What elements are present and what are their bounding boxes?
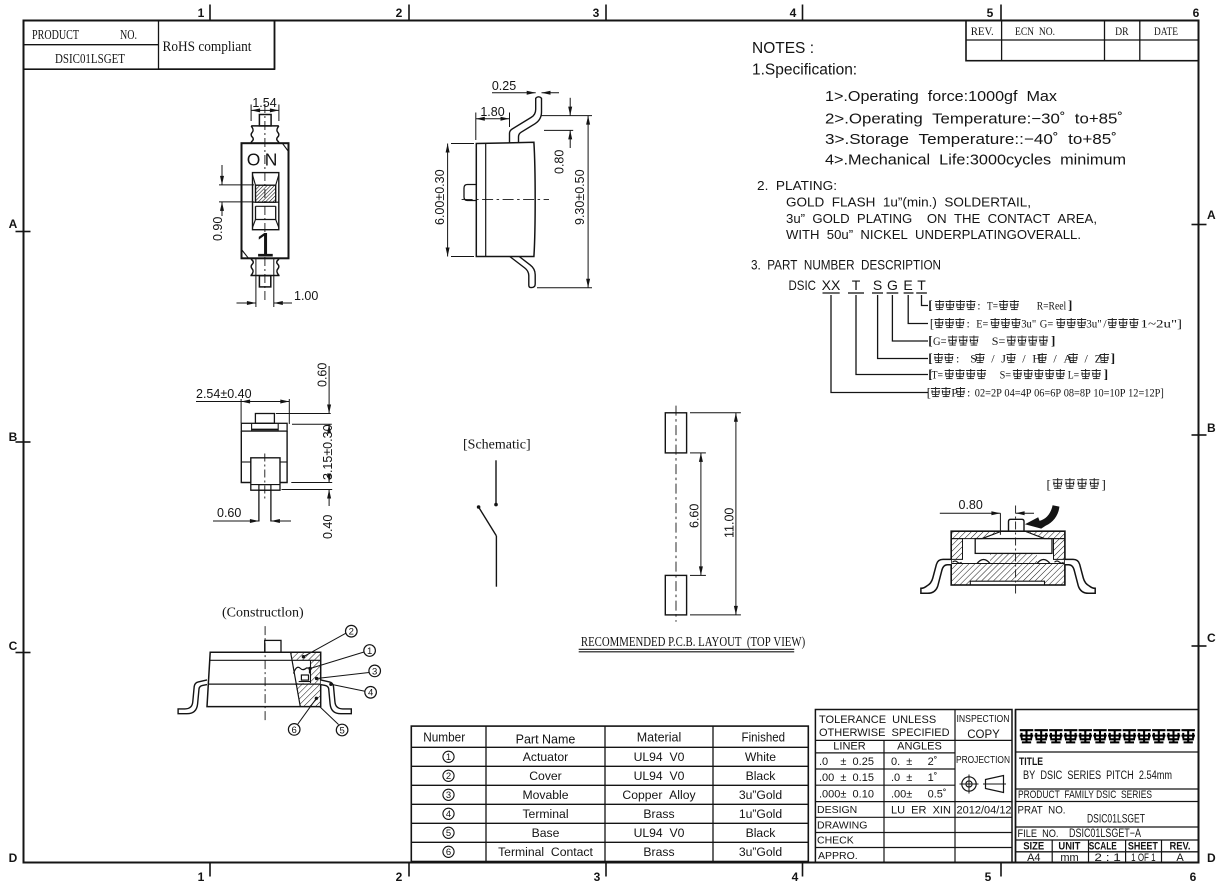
svg-text:S=: S= — [1000, 368, 1012, 382]
svg-text:REV.: REV. — [971, 24, 994, 38]
svg-text:.0 ± 1˚: .0 ± 1˚ — [891, 772, 937, 784]
side view body left band — [485, 143, 487, 256]
front view top flare — [251, 126, 279, 143]
pitch view top band — [241, 423, 287, 431]
dimension 0.90 left — [219, 184, 254, 186]
svg-text:2.54±0.40: 2.54±0.40 — [196, 387, 252, 401]
svg-text:REV.: REV. — [1170, 841, 1191, 853]
svg-text:INSPECTION: INSPECTION — [957, 714, 1010, 725]
svg-text:2012/04/12: 2012/04/12 — [957, 805, 1012, 817]
svg-text:1: 1 — [255, 227, 274, 265]
side view top lead — [510, 97, 542, 143]
front view slider knob hatched — [256, 185, 276, 202]
svg-text:Finished: Finished — [742, 731, 786, 745]
svg-text:9.30±0.50: 9.30±0.50 — [573, 169, 587, 225]
svg-text:XX: XX — [822, 277, 841, 293]
pitch view knob — [255, 414, 274, 424]
svg-text:3u” GOLD PLATING ON THE: 3u” GOLD PLATING ON THE CONTACT AREA, — [786, 211, 1097, 226]
svg-text:SCALE: SCALE — [1089, 841, 1117, 853]
construction right lead — [321, 680, 352, 714]
travel view right lead — [1065, 559, 1095, 593]
tolerance table grid — [815, 710, 1012, 863]
schematic switch lower wire — [495, 536, 497, 587]
svg-text:Number: Number — [423, 731, 465, 745]
side view body outline — [476, 142, 535, 256]
travel view contact squiggle right — [1055, 561, 1064, 563]
svg-text:4>.Mechanical Life:3000cycles: 4>.Mechanical Life:3000cycles minimum — [825, 153, 1126, 169]
svg-text:DR: DR — [1115, 24, 1129, 38]
svg-text:E: E — [903, 277, 912, 293]
svg-text:Cover: Cover — [529, 769, 562, 783]
svg-text:6: 6 — [1193, 6, 1200, 20]
svg-text:5: 5 — [985, 870, 992, 884]
svg-text:2: 2 — [446, 771, 451, 782]
svg-text:PRODUCT: PRODUCT — [32, 27, 80, 42]
svg-text:G: G — [887, 277, 898, 293]
svg-text:[Schematic]: [Schematic] — [463, 438, 531, 453]
svg-text:DATE: DATE — [1154, 24, 1178, 38]
svg-text:S: S — [970, 352, 977, 366]
travel view knob — [1009, 519, 1025, 531]
svg-text:GOLD FLASH 1u”(min.) SOLDER: GOLD FLASH 1u”(min.) SOLDERTAIL, — [786, 195, 1031, 210]
svg-text:[: [ — [927, 386, 931, 400]
svg-text:TITLE: TITLE — [1019, 756, 1043, 768]
svg-text:DSIC01LSGET−A: DSIC01LSGET−A — [1069, 828, 1141, 840]
revision table — [966, 21, 1199, 61]
svg-text:[: [ — [928, 333, 932, 348]
svg-text:5: 5 — [987, 6, 994, 20]
pitch view centerline — [264, 454, 266, 501]
construction left lead — [178, 680, 207, 714]
projection cone — [986, 776, 1004, 793]
svg-text:3u": 3u" — [1086, 317, 1102, 331]
svg-text:.0 ± 0.25: .0 ± 0.25 — [819, 756, 874, 768]
svg-text:B: B — [1207, 421, 1216, 435]
svg-text:3: 3 — [446, 790, 451, 801]
svg-text:5: 5 — [339, 725, 344, 736]
dimension 1.00 bottom — [255, 259, 257, 307]
svg-text:0.80: 0.80 — [959, 498, 983, 512]
svg-text:S=: S= — [992, 334, 1006, 348]
svg-text:1>.Operating force:1000gf Ma: 1>.Operating force:1000gf Max — [825, 89, 1058, 105]
frame zone ticks top — [209, 5, 211, 21]
svg-text:3>.Storage Temperature::−40˚: 3>.Storage Temperature::−40˚ to+85˚ — [825, 132, 1117, 148]
svg-text:DESIGN: DESIGN — [817, 804, 857, 816]
side view centerline — [462, 198, 549, 200]
svg-text:APPRO.: APPRO. — [818, 850, 858, 862]
construction body lines — [210, 659, 321, 661]
travel view centerline — [1015, 506, 1017, 595]
construction section slant line — [291, 652, 301, 706]
svg-text:.000± 0.10: .000± 0.10 — [819, 788, 874, 800]
construction movable contact — [294, 667, 310, 673]
svg-text:0.25: 0.25 — [492, 79, 516, 93]
travel view contact band hatched — [990, 553, 1037, 563]
front view centerline — [264, 104, 266, 303]
svg-text:D: D — [1207, 851, 1216, 865]
svg-text:E=: E= — [976, 317, 988, 331]
svg-text:NO.: NO. — [120, 27, 137, 42]
svg-text:[: [ — [1047, 477, 1051, 492]
svg-text:Brass: Brass — [643, 807, 674, 821]
side view bottom lead — [510, 257, 535, 288]
svg-text:D: D — [9, 851, 18, 865]
svg-text:3u”Gold: 3u”Gold — [739, 845, 782, 859]
svg-text:PRAT NO.: PRAT NO. — [1018, 805, 1066, 817]
pcb layout top pad — [665, 413, 686, 453]
svg-text::: : — [956, 352, 959, 366]
svg-text:4: 4 — [792, 870, 799, 884]
svg-text:]: ] — [1068, 298, 1072, 313]
travel view slot edges — [982, 531, 1045, 538]
svg-text:.00± 0.5˚: .00± 0.5˚ — [891, 788, 947, 800]
svg-text:NOTES :: NOTES : — [752, 40, 814, 57]
svg-text:2>.Operating Temperature:−30˚: 2>.Operating Temperature:−30˚ to+85˚ — [825, 112, 1123, 128]
svg-text:RECOMMENDED P.C.B. LAYOUT (TO: RECOMMENDED P.C.B. LAYOUT (TOP VIEW) — [581, 634, 805, 650]
svg-text:4: 4 — [368, 688, 373, 699]
svg-text:]: ] — [1051, 333, 1055, 348]
front view slot shoulders top — [253, 175, 279, 185]
svg-text:BY DSIC SERIES PITCH 2.54m: BY DSIC SERIES PITCH 2.54mm — [1023, 770, 1172, 782]
travel view contact squiggle left — [953, 561, 962, 563]
svg-text:6: 6 — [292, 725, 297, 736]
svg-text:ECN NO.: ECN NO. — [1015, 24, 1055, 38]
svg-text:Black: Black — [746, 826, 777, 840]
svg-text:B: B — [9, 430, 18, 444]
svg-text:1: 1 — [446, 752, 451, 763]
svg-text:Part Name: Part Name — [516, 733, 576, 747]
part number code underlines — [823, 292, 840, 294]
svg-text:1~2u"]: 1~2u"] — [1141, 317, 1183, 331]
svg-text:0.40: 0.40 — [321, 515, 335, 539]
svg-text:3: 3 — [372, 666, 377, 677]
construction body outline — [207, 652, 321, 706]
svg-text:.00 ± 0.15: .00 ± 0.15 — [819, 772, 874, 784]
front view body corner notch bottom-left — [242, 250, 249, 259]
svg-text:2: 2 — [396, 870, 403, 884]
front view top pin — [259, 115, 271, 126]
pitch view body — [241, 431, 287, 482]
size unit scale sheet rev row — [1051, 840, 1053, 863]
svg-text:UNIT: UNIT — [1058, 841, 1080, 853]
svg-text:1u”Gold: 1u”Gold — [739, 807, 782, 821]
svg-text:C: C — [1207, 631, 1216, 645]
svg-text:T=: T= — [932, 368, 944, 382]
svg-text:Brass: Brass — [643, 845, 674, 859]
svg-text:02=2P 04=4P 06=6P 08=8P 10=10P: 02=2P 04=4P 06=6P 08=8P 10=10P 12=12P] — [975, 386, 1164, 400]
svg-text::: : — [967, 386, 970, 400]
svg-text:]: ] — [1111, 351, 1115, 366]
part number leader lines — [922, 295, 929, 306]
svg-text:DRAWING: DRAWING — [817, 820, 867, 832]
svg-text:Terminal: Terminal — [522, 807, 568, 821]
construction right wall hatch — [311, 660, 321, 683]
svg-text:[: [ — [930, 317, 934, 331]
svg-text:ANGLES: ANGLES — [897, 741, 942, 753]
construction knob — [265, 640, 281, 652]
svg-text:C: C — [9, 639, 18, 653]
pitch view body inner line — [241, 461, 251, 463]
svg-text::: : — [977, 299, 980, 313]
svg-text:mm: mm — [1060, 852, 1078, 864]
svg-text:A: A — [9, 217, 18, 231]
svg-text:6: 6 — [446, 847, 451, 858]
construction centerline — [264, 626, 266, 721]
projection symbol — [962, 777, 976, 791]
svg-text:1.54: 1.54 — [252, 96, 276, 110]
svg-text:T: T — [852, 277, 861, 293]
svg-text:Terminal Contact: Terminal Contact — [498, 845, 593, 859]
svg-text:A: A — [1207, 208, 1216, 222]
svg-text:G=: G= — [933, 334, 947, 348]
travel view body outline — [951, 531, 1065, 585]
svg-text:[: [ — [928, 298, 932, 313]
svg-text:1: 1 — [367, 646, 372, 657]
svg-text:LINER: LINER — [833, 741, 865, 753]
svg-text:UL94 V0: UL94 V0 — [634, 750, 685, 764]
svg-text:T=: T= — [987, 299, 998, 313]
svg-text:RoHS compliant: RoHS compliant — [163, 39, 252, 55]
svg-text:5: 5 — [446, 828, 451, 839]
svg-text:1: 1 — [198, 870, 205, 884]
construction balloon leaders — [303, 633, 346, 657]
svg-text:WITH 50u” NICKEL UNDERPLATI: WITH 50u” NICKEL UNDERPLATINGOVERALL. — [786, 227, 1081, 242]
svg-text:L=: L= — [1068, 368, 1080, 382]
travel view black arrow — [1025, 505, 1060, 528]
svg-text:LU ER XIN: LU ER XIN — [891, 805, 951, 817]
svg-text:PROJECTION: PROJECTION — [956, 755, 1010, 766]
svg-text:0.60: 0.60 — [316, 363, 330, 387]
pitch view slider — [251, 458, 280, 483]
svg-text:6.00±0.30: 6.00±0.30 — [433, 169, 447, 225]
svg-text:2: 2 — [396, 6, 403, 20]
front view bottom flare — [251, 258, 279, 275]
svg-text:UL94 V0: UL94 V0 — [634, 769, 685, 783]
parts table grid — [411, 726, 808, 861]
svg-text:2. PLATING:: 2. PLATING: — [757, 178, 837, 193]
svg-text:11.00: 11.00 — [722, 508, 736, 538]
svg-text:3: 3 — [593, 6, 600, 20]
pcb layout bottom pad — [665, 575, 686, 615]
svg-text:0. ± 2˚: 0. ± 2˚ — [891, 756, 937, 768]
svg-text:0.90: 0.90 — [211, 217, 225, 241]
svg-text:4: 4 — [790, 6, 797, 20]
svg-text:0.60: 0.60 — [217, 506, 241, 520]
svg-text:3u": 3u" — [1021, 317, 1036, 331]
svg-text:1.Specification:: 1.Specification: — [752, 62, 857, 79]
svg-text:Base: Base — [532, 826, 560, 840]
svg-text:1 OF 1: 1 OF 1 — [1131, 852, 1156, 864]
front view slider lower detail — [253, 201, 279, 203]
travel view base hatched — [951, 564, 1065, 586]
svg-text:DSIC: DSIC — [789, 277, 817, 293]
pitch view stem — [258, 490, 260, 521]
svg-text:CHECK: CHECK — [817, 835, 854, 847]
travel view top hatch band — [951, 531, 1001, 538]
svg-text:3: 3 — [594, 870, 601, 884]
svg-text:PRODUCT FAMILY DSIC SERIES: PRODUCT FAMILY DSIC SERIES — [1018, 789, 1152, 801]
title block product-no table — [24, 21, 275, 70]
construction top cover hatch — [291, 652, 321, 660]
svg-text:6: 6 — [1190, 870, 1197, 884]
svg-text:1: 1 — [198, 6, 205, 20]
svg-text:T: T — [917, 277, 926, 293]
travel view inner cover cavity — [975, 539, 1052, 554]
svg-text:[: [ — [928, 351, 932, 366]
front view slider slot — [253, 173, 279, 230]
svg-text:DSIC01LSGET: DSIC01LSGET — [55, 51, 126, 66]
svg-text:1.00: 1.00 — [294, 289, 318, 303]
frame zone ticks right — [1192, 224, 1207, 226]
svg-text:SHEET: SHEET — [1128, 841, 1158, 853]
front view body corner notch top-right — [282, 143, 288, 151]
svg-text:Material: Material — [637, 731, 681, 745]
front view bottom pin — [259, 276, 270, 287]
svg-text:N: N — [265, 150, 278, 170]
travel view contact arcs — [977, 560, 990, 564]
company block grid — [1015, 710, 1017, 863]
parts table rows — [443, 751, 454, 762]
svg-text:6.60: 6.60 — [687, 504, 701, 528]
svg-text:SIZE: SIZE — [1023, 841, 1044, 853]
pitch view stem top detail — [259, 485, 271, 491]
svg-text:DSIC01LSGET: DSIC01LSGET — [1087, 814, 1145, 826]
svg-text:OTHERWISE SPECIFIED: OTHERWISE SPECIFIED — [819, 727, 950, 739]
svg-text:(Constructlon): (Constructlon) — [222, 606, 304, 621]
svg-text:G=: G= — [1040, 317, 1054, 331]
construction base hatch — [295, 683, 321, 707]
svg-text:S: S — [873, 277, 882, 293]
side view actuator bump — [464, 185, 476, 201]
svg-text:]: ] — [1104, 367, 1108, 382]
svg-text:2 : 1: 2 : 1 — [1094, 852, 1121, 864]
schematic switch blade — [478, 506, 496, 536]
schematic switch upper contact wire — [495, 460, 497, 505]
svg-text:COPY: COPY — [967, 729, 1000, 741]
company name — [1020, 729, 1033, 742]
svg-text:UL94 V0: UL94 V0 — [634, 826, 685, 840]
svg-text:R=Reel: R=Reel — [1037, 299, 1067, 313]
construction balloons — [346, 625, 358, 637]
frame zone ticks left — [16, 231, 31, 233]
svg-text:3. PART NUMBER DESCRIPTION: 3. PART NUMBER DESCRIPTION — [751, 258, 941, 273]
svg-text:TOLERANCE UNLESS: TOLERANCE UNLESS — [819, 714, 936, 726]
svg-text:J: J — [1001, 352, 1006, 366]
svg-text:H: H — [1032, 352, 1041, 366]
svg-text:3u”Gold: 3u”Gold — [739, 788, 782, 802]
travel view side walls hatched — [951, 539, 962, 560]
svg-text:FILE NO.: FILE NO. — [1018, 828, 1059, 840]
frame zone ticks bottom — [209, 863, 211, 877]
svg-text:A: A — [1064, 352, 1073, 366]
svg-text::: : — [967, 317, 970, 331]
svg-text:4: 4 — [446, 809, 451, 820]
svg-text:A4: A4 — [1027, 852, 1040, 864]
svg-text:White: White — [745, 750, 776, 764]
svg-text:]: ] — [1102, 477, 1106, 492]
svg-text:Movable: Movable — [522, 788, 568, 802]
svg-text:0.80: 0.80 — [553, 150, 567, 174]
svg-text:Black: Black — [746, 769, 777, 783]
svg-text:Copper Alloy: Copper Alloy — [622, 788, 696, 802]
pcb layout centerline — [675, 406, 677, 622]
travel view left lead — [921, 559, 951, 593]
front view body outline — [242, 143, 289, 258]
svg-text:O: O — [247, 150, 261, 170]
svg-text:Actuator: Actuator — [523, 750, 568, 764]
svg-text:2: 2 — [349, 627, 354, 638]
svg-text:A: A — [1176, 852, 1184, 864]
